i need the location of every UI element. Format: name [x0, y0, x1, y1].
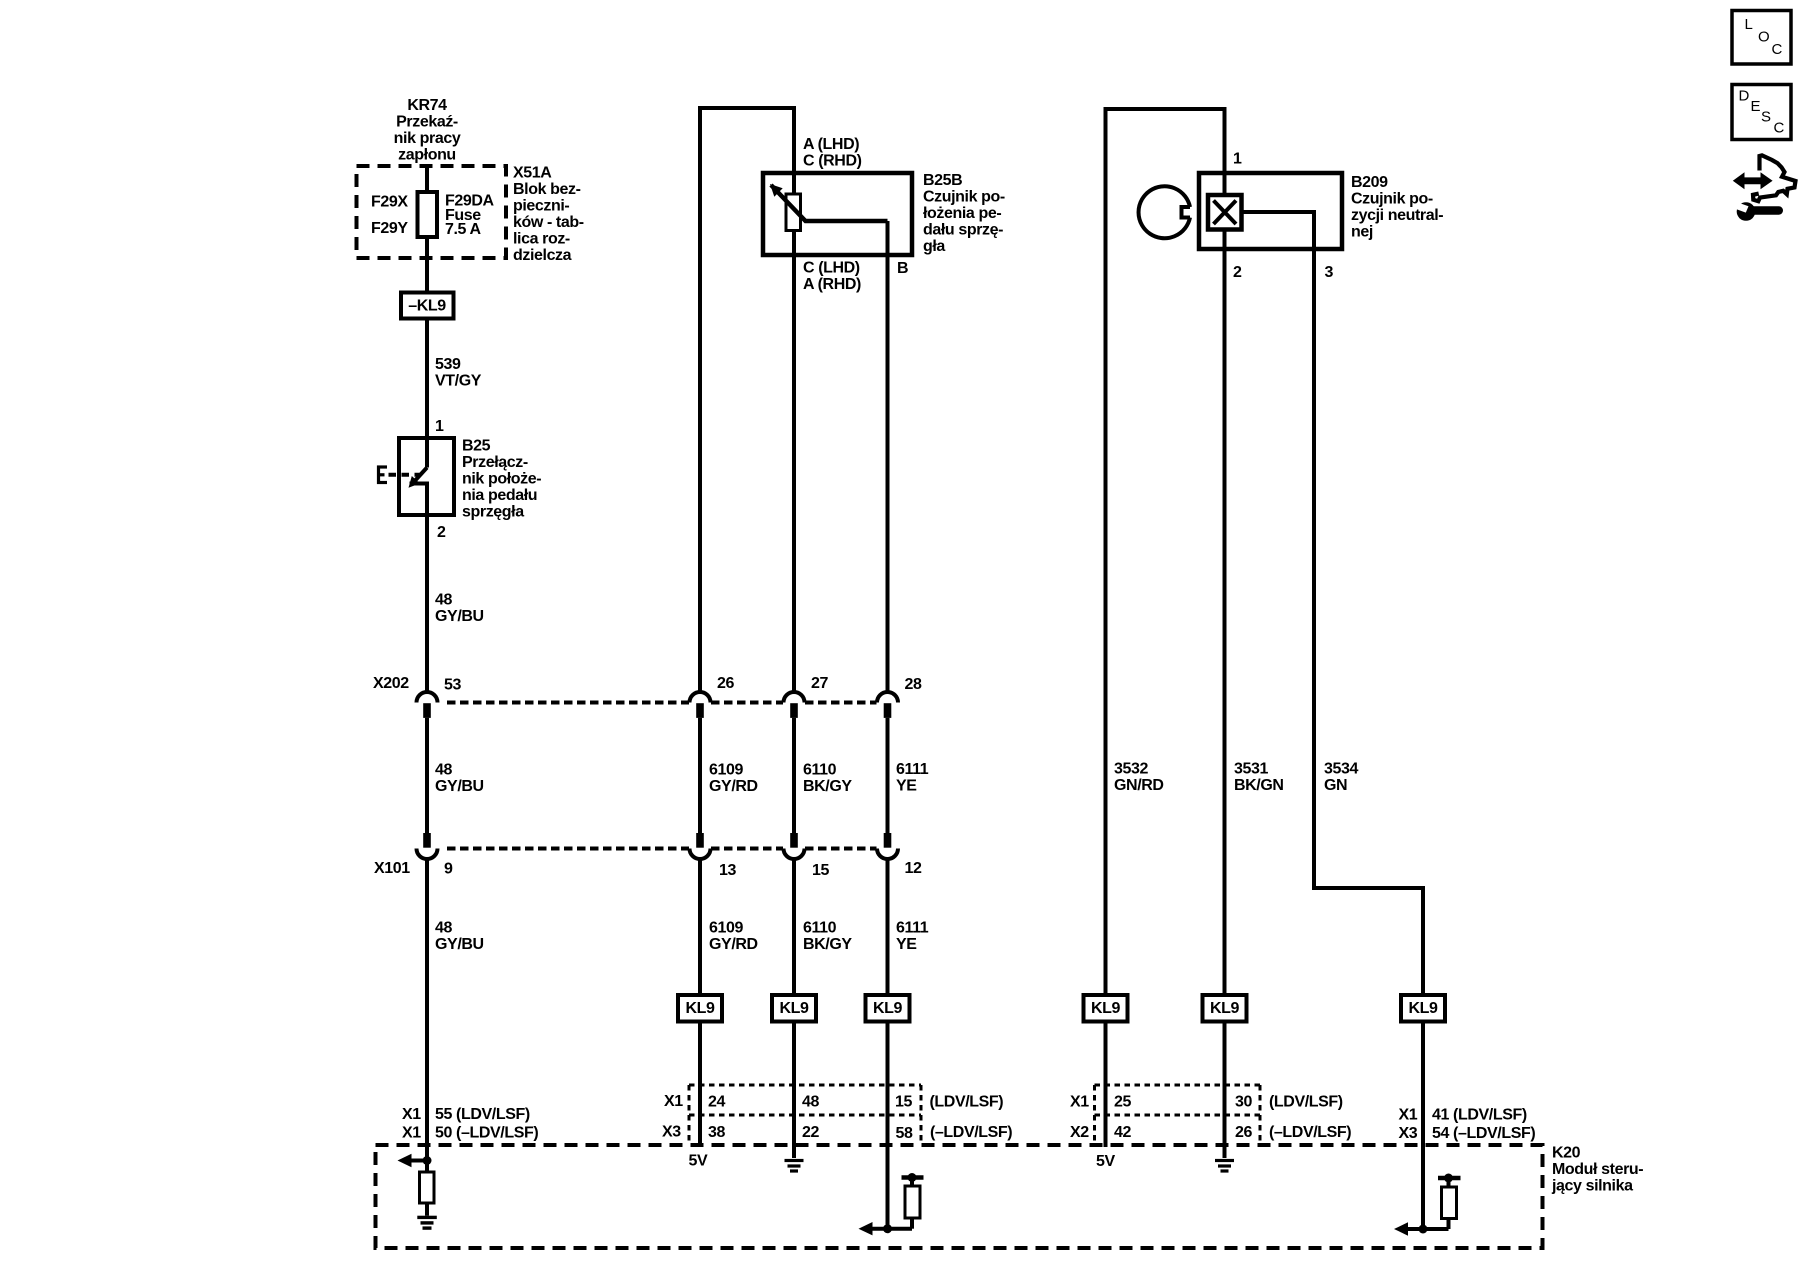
svg-text:X1: X1	[1070, 1094, 1089, 1111]
svg-text:Przełącz-: Przełącz-	[462, 454, 528, 471]
svg-text:GY/RD: GY/RD	[709, 778, 758, 795]
svg-text:6110: 6110	[803, 920, 837, 937]
svg-text:1: 1	[1233, 151, 1242, 168]
svg-text:30: 30	[1235, 1094, 1252, 1111]
svg-text:O: O	[1758, 29, 1769, 46]
svg-text:GY/RD: GY/RD	[709, 936, 758, 953]
svg-text:Czujnik po-: Czujnik po-	[1351, 191, 1433, 208]
svg-text:26: 26	[717, 675, 734, 692]
svg-text:2: 2	[437, 524, 446, 541]
svg-text:E: E	[1751, 98, 1761, 115]
svg-text:Moduł steru-: Moduł steru-	[1552, 1161, 1643, 1178]
svg-text:(LDV/LSF): (LDV/LSF)	[1269, 1094, 1343, 1111]
svg-text:jący silnika: jący silnika	[1551, 1178, 1633, 1195]
svg-text:539: 539	[435, 356, 461, 373]
svg-text:KR74: KR74	[407, 97, 447, 114]
svg-text:gła: gła	[923, 238, 945, 255]
svg-text:zycji neutral-: zycji neutral-	[1351, 207, 1443, 224]
svg-text:X51A: X51A	[513, 165, 552, 182]
svg-text:łożenia pe-: łożenia pe-	[923, 205, 1001, 222]
svg-text:26: 26	[1235, 1124, 1252, 1141]
svg-text:BK/GN: BK/GN	[1234, 777, 1284, 794]
svg-text:C (RHD): C (RHD)	[803, 153, 862, 170]
svg-text:15: 15	[895, 1094, 912, 1111]
svg-text:X202: X202	[373, 675, 409, 692]
svg-text:nik położe-: nik położe-	[462, 471, 541, 488]
svg-text:pieczni-: pieczni-	[513, 198, 569, 215]
svg-text:BK/GY: BK/GY	[803, 778, 852, 795]
svg-text:28: 28	[905, 676, 922, 693]
svg-text:KL9: KL9	[1408, 1000, 1438, 1017]
svg-text:ków - tab-: ków - tab-	[513, 214, 584, 231]
svg-text:9: 9	[444, 861, 453, 878]
svg-text:D: D	[1739, 88, 1750, 105]
svg-text:13: 13	[719, 862, 736, 879]
svg-text:–KL9: –KL9	[408, 298, 446, 315]
svg-text:3534: 3534	[1324, 761, 1358, 778]
svg-text:6111: 6111	[896, 761, 929, 778]
svg-text:YE: YE	[896, 936, 917, 953]
svg-text:GN: GN	[1324, 777, 1347, 794]
svg-text:5V: 5V	[689, 1153, 708, 1170]
svg-text:KL9: KL9	[1210, 1000, 1240, 1017]
svg-text:Przekaź-: Przekaź-	[396, 114, 458, 131]
svg-text:7.5 A: 7.5 A	[445, 221, 481, 238]
svg-text:F29X: F29X	[371, 194, 408, 211]
svg-text:K20: K20	[1552, 1145, 1581, 1162]
svg-text:2: 2	[1233, 264, 1242, 281]
svg-text:6109: 6109	[709, 920, 743, 937]
svg-text:22: 22	[802, 1124, 819, 1141]
svg-text:55 (LDV/LSF): 55 (LDV/LSF)	[435, 1106, 530, 1123]
svg-text:C (LHD): C (LHD)	[803, 260, 860, 277]
svg-text:48: 48	[435, 592, 452, 609]
svg-text:YE: YE	[896, 778, 917, 795]
svg-text:48: 48	[435, 762, 452, 779]
svg-text:KL9: KL9	[1091, 1000, 1121, 1017]
svg-text:GN/RD: GN/RD	[1114, 777, 1164, 794]
svg-text:sprzęgła: sprzęgła	[462, 504, 524, 521]
svg-text:X1: X1	[402, 1125, 421, 1142]
svg-text:(–LDV/LSF): (–LDV/LSF)	[930, 1124, 1012, 1141]
svg-text:24: 24	[708, 1094, 725, 1111]
svg-text:6111: 6111	[896, 920, 929, 937]
svg-text:6110: 6110	[803, 762, 837, 779]
svg-text:50 (–LDV/LSF): 50 (–LDV/LSF)	[435, 1125, 538, 1142]
svg-text:42: 42	[1114, 1124, 1131, 1141]
svg-text:C: C	[1774, 120, 1785, 137]
svg-text:zapłonu: zapłonu	[398, 147, 456, 164]
svg-text:X1: X1	[402, 1106, 421, 1123]
svg-text:A (LHD): A (LHD)	[803, 136, 859, 153]
svg-text:C: C	[1772, 41, 1783, 58]
svg-text:GY/BU: GY/BU	[435, 936, 484, 953]
svg-text:41 (LDV/LSF): 41 (LDV/LSF)	[1432, 1107, 1527, 1124]
svg-text:(–LDV/LSF): (–LDV/LSF)	[1269, 1124, 1351, 1141]
svg-text:nia pedału: nia pedału	[462, 487, 537, 504]
svg-text:BK/GY: BK/GY	[803, 936, 852, 953]
svg-text:Blok bez-: Blok bez-	[513, 181, 581, 198]
svg-text:B25: B25	[462, 438, 491, 455]
svg-text:A (RHD): A (RHD)	[803, 276, 861, 293]
svg-text:B: B	[897, 260, 908, 277]
svg-text:48: 48	[435, 920, 452, 937]
svg-text:48: 48	[802, 1094, 819, 1111]
svg-text:(LDV/LSF): (LDV/LSF)	[930, 1094, 1004, 1111]
svg-text:5V: 5V	[1096, 1153, 1115, 1170]
svg-text:53: 53	[444, 677, 461, 694]
svg-text:38: 38	[708, 1124, 725, 1141]
svg-text:X2: X2	[1070, 1124, 1089, 1141]
svg-text:3: 3	[1325, 264, 1334, 281]
svg-text:lica roz-: lica roz-	[513, 231, 570, 248]
svg-text:X3: X3	[662, 1124, 681, 1141]
svg-text:KL9: KL9	[685, 1000, 715, 1017]
svg-text:VT/GY: VT/GY	[435, 373, 482, 390]
svg-text:F29Y: F29Y	[371, 220, 408, 237]
svg-text:L: L	[1745, 16, 1753, 33]
svg-text:B209: B209	[1351, 174, 1388, 191]
svg-text:S: S	[1761, 109, 1771, 126]
svg-text:1: 1	[435, 418, 444, 435]
svg-text:3532: 3532	[1114, 761, 1148, 778]
svg-text:54 (–LDV/LSF): 54 (–LDV/LSF)	[1432, 1125, 1535, 1142]
svg-text:25: 25	[1114, 1094, 1131, 1111]
svg-text:B25B: B25B	[923, 172, 962, 189]
svg-text:nej: nej	[1351, 224, 1373, 241]
svg-text:3531: 3531	[1234, 761, 1268, 778]
svg-text:dału sprzę-: dału sprzę-	[923, 222, 1003, 239]
svg-text:6109: 6109	[709, 762, 743, 779]
svg-text:nik pracy: nik pracy	[394, 130, 461, 147]
svg-text:Czujnik po-: Czujnik po-	[923, 189, 1005, 206]
svg-text:12: 12	[905, 860, 922, 877]
svg-text:GY/BU: GY/BU	[435, 778, 484, 795]
svg-text:27: 27	[811, 675, 828, 692]
svg-text:X3: X3	[1399, 1125, 1418, 1142]
svg-text:X101: X101	[374, 860, 410, 877]
svg-text:58: 58	[896, 1125, 913, 1142]
svg-text:dzielcza: dzielcza	[513, 247, 572, 264]
svg-text:X1: X1	[1399, 1107, 1418, 1124]
svg-text:KL9: KL9	[779, 1000, 809, 1017]
svg-text:15: 15	[812, 862, 829, 879]
svg-text:KL9: KL9	[873, 1000, 903, 1017]
svg-text:X1: X1	[664, 1093, 683, 1110]
svg-text:GY/BU: GY/BU	[435, 608, 484, 625]
